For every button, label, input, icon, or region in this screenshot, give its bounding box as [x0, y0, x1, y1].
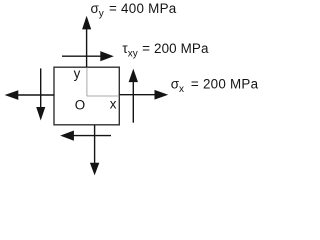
tau top arrow (right)	[62, 51, 114, 61]
label O	[75, 98, 85, 113]
sigma_y bottom arrow (down)	[90, 125, 99, 176]
stress element square	[54, 67, 119, 125]
label sigma_y = 400 MPa	[91, 1, 177, 20]
tau left arrow (down)	[36, 68, 45, 120]
label tau_xy = 200 MPa	[122, 41, 209, 60]
sigma_y top arrow (up)	[82, 16, 91, 67]
tau bottom arrow (left)	[60, 131, 111, 141]
label y	[74, 66, 81, 81]
x axis (gray)	[87, 95, 119, 97]
sigma_x right arrow (right)	[119, 90, 168, 100]
svg-text:x: x	[110, 96, 117, 111]
y axis (gray)	[86, 68, 88, 97]
label x	[110, 96, 117, 111]
tau right arrow (up)	[129, 69, 138, 123]
svg-text:y: y	[74, 66, 81, 81]
label sigma_x = 200 MPa	[171, 77, 259, 96]
svg-text:O: O	[75, 98, 85, 113]
sigma_x left arrow (left)	[5, 90, 55, 100]
